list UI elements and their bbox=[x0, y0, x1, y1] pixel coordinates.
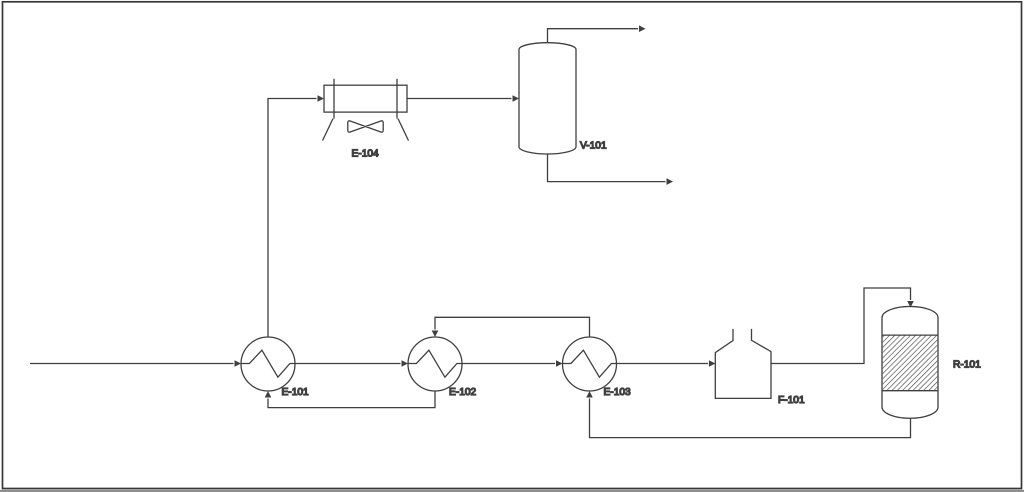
wire riser E-101 top to E-104 bbox=[268, 99, 317, 338]
furnace F-101 bbox=[715, 329, 771, 399]
svg-text:F-101: F-101 bbox=[778, 395, 805, 406]
heat exchanger E-103 bbox=[563, 337, 617, 391]
wire V-101 bottom outlet bbox=[548, 154, 666, 182]
reactor R-101 bbox=[882, 306, 938, 418]
wire hot loop E-103 top to E-102 top bbox=[435, 317, 590, 337]
svg-text:V-101: V-101 bbox=[580, 141, 607, 152]
svg-text:E-103: E-103 bbox=[604, 387, 632, 398]
wire hot loop E-102 bottom to E-101 bottom bbox=[268, 391, 435, 408]
svg-text:E-101: E-101 bbox=[282, 387, 310, 398]
wire R-101 bottom to E-103 bottom bbox=[590, 399, 911, 438]
wire feed line into E-101 bbox=[30, 363, 234, 365]
heat exchanger E-101 bbox=[241, 337, 295, 391]
svg-text:E-102: E-102 bbox=[449, 387, 477, 398]
wire E-101 to E-102 bbox=[295, 363, 401, 365]
wire E-102 to E-103 bbox=[462, 363, 555, 365]
wire E-103 to F-101 bbox=[617, 363, 709, 365]
air cooler E-104 bbox=[323, 79, 409, 141]
vessel V-101 bbox=[519, 43, 576, 154]
bottom gray strip bbox=[0, 490, 1024, 492]
heat exchanger E-102 bbox=[408, 337, 462, 391]
svg-text:E-104: E-104 bbox=[352, 149, 380, 160]
wire V-101 top outlet bbox=[548, 29, 639, 43]
wire F-101 to R-101 top bbox=[771, 288, 911, 364]
svg-text:R-101: R-101 bbox=[953, 360, 981, 371]
wire E-104 to V-101 bbox=[407, 98, 512, 100]
